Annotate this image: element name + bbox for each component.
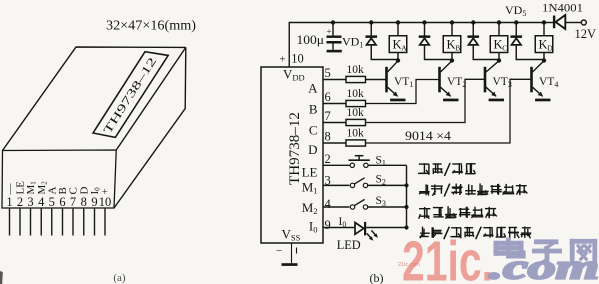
wire pin M1	[323, 184, 349, 186]
annotation non-lock/transient output select	[419, 184, 430, 195]
svg-text:10k: 10k	[347, 88, 365, 100]
IC pin name labels	[302, 81, 319, 235]
svg-text:K: K	[446, 37, 455, 51]
svg-text:7: 7	[325, 109, 331, 123]
package pin names rotated	[4, 181, 112, 196]
svg-text:C: C	[502, 44, 507, 53]
wire base VT1	[366, 79, 387, 81]
svg-text:9: 9	[91, 195, 97, 209]
svg-text:6: 6	[325, 90, 331, 104]
svg-text:(a): (a)	[113, 272, 126, 284]
svg-text:(b): (b)	[370, 271, 384, 284]
wire base VT3	[366, 79, 485, 122]
relay KC	[490, 23, 508, 61]
package pin numbers 1-10	[6, 195, 111, 209]
svg-text:K: K	[538, 37, 547, 51]
svg-text:B: B	[455, 44, 460, 53]
wire S2 to bus	[367, 184, 407, 186]
wire S3 to bus	[367, 206, 407, 208]
wire pin C	[323, 122, 346, 124]
IC U1 TH9738-12 outline	[261, 67, 323, 243]
bus junction dots	[404, 183, 408, 229]
svg-text:100μ: 100μ	[297, 32, 325, 47]
svg-text:−: −	[276, 245, 282, 257]
svg-text:TH9738–12: TH9738–12	[287, 112, 303, 185]
svg-text:+: +	[327, 26, 332, 36]
svg-text:LED: LED	[337, 238, 361, 252]
svg-text:D: D	[547, 44, 553, 53]
svg-text:1: 1	[6, 195, 12, 209]
svg-text:1N4001: 1N4001	[542, 2, 583, 14]
watermark dianziwang	[496, 240, 523, 256]
terminal 12V	[581, 20, 586, 25]
diode VD3	[467, 23, 499, 60]
switch S3 toggle	[350, 199, 367, 209]
svg-text:8: 8	[81, 195, 87, 209]
svg-text:.com: .com	[489, 248, 599, 284]
transistor VT3	[484, 58, 504, 101]
wire base VT2	[366, 80, 440, 104]
svg-text:4: 4	[325, 197, 332, 211]
diode VD5 series 1N4001	[544, 15, 581, 29]
wire base VT4	[366, 79, 532, 143]
svg-text:5: 5	[49, 195, 55, 209]
wire select bus	[406, 165, 408, 227]
svg-text:6: 6	[59, 195, 65, 209]
svg-text:9014 ×4: 9014 ×4	[405, 128, 452, 143]
relay KB	[443, 23, 461, 61]
wire VDD supply rail	[289, 23, 544, 68]
svg-text:21ic.: 21ic.	[402, 230, 493, 284]
switch S1 pushbutton	[349, 156, 370, 168]
relay KD	[535, 23, 553, 61]
svg-text:A: A	[401, 44, 407, 53]
LED indicator	[355, 222, 378, 241]
diode VD4	[510, 23, 544, 60]
transistor VT4	[530, 58, 550, 101]
svg-text:LE: LE	[302, 165, 318, 180]
transistor VT2	[438, 58, 458, 101]
IC VSS ground	[276, 243, 298, 266]
annotation decode/memory/erase indicator	[420, 227, 430, 239]
svg-text:C: C	[309, 123, 318, 138]
svg-text:2: 2	[17, 195, 23, 209]
svg-text:10k: 10k	[347, 107, 365, 119]
svg-text:K: K	[392, 37, 401, 51]
wire S1 to bus	[368, 164, 407, 166]
svg-text:21ic.com: 21ic.com	[398, 262, 420, 268]
rail junction dots	[331, 20, 546, 24]
annotation memory/erase	[418, 163, 429, 175]
wire LED to bus	[366, 227, 406, 229]
wire pin A	[323, 79, 346, 81]
svg-text:2: 2	[325, 152, 331, 166]
resistor R3 10k	[346, 119, 366, 125]
svg-text:10: 10	[99, 195, 112, 209]
resistor R4 10k	[346, 140, 366, 146]
svg-text:8: 8	[325, 129, 331, 143]
wire pin M2	[323, 206, 349, 208]
svg-text:4: 4	[38, 195, 45, 209]
package top face	[3, 47, 186, 151]
svg-text:+: +	[280, 55, 286, 66]
svg-text:5: 5	[325, 66, 331, 80]
package front face	[2, 150, 116, 208]
svg-text:A: A	[308, 81, 318, 96]
wire pin D	[323, 142, 346, 144]
svg-text:K: K	[493, 37, 502, 51]
svg-text:12V: 12V	[575, 27, 597, 41]
svg-text:3: 3	[27, 195, 33, 209]
package ridge edge	[116, 47, 186, 150]
svg-text:+: +	[100, 188, 112, 194]
wire pin I0	[323, 227, 354, 229]
svg-text:9: 9	[325, 218, 331, 232]
svg-text:32×47×16(mm): 32×47×16(mm)	[106, 18, 196, 33]
svg-text:10k: 10k	[347, 128, 365, 140]
diode VD2	[419, 23, 452, 60]
package pin leads	[10, 209, 106, 236]
svg-text:10: 10	[291, 51, 304, 65]
wire pin LE	[323, 164, 350, 166]
svg-text:7: 7	[70, 195, 76, 209]
svg-text:10k: 10k	[347, 64, 365, 76]
resistor R2 10k	[346, 100, 366, 106]
wire pin B	[323, 103, 346, 105]
resistor R1 10k	[346, 76, 366, 82]
relay KA	[389, 23, 407, 61]
package label strip	[93, 52, 168, 138]
diode VD1	[365, 23, 398, 60]
svg-text:B: B	[309, 102, 318, 117]
svg-text:D: D	[308, 142, 317, 157]
switch S2 toggle	[350, 178, 367, 188]
scan edge artifact	[0, 271, 3, 284]
capacitor C1 100u	[332, 23, 334, 36]
annotation bistable output select	[419, 207, 431, 219]
transistor VT1	[385, 58, 405, 101]
IC pin numbers	[325, 66, 332, 232]
package right face	[114, 47, 186, 208]
